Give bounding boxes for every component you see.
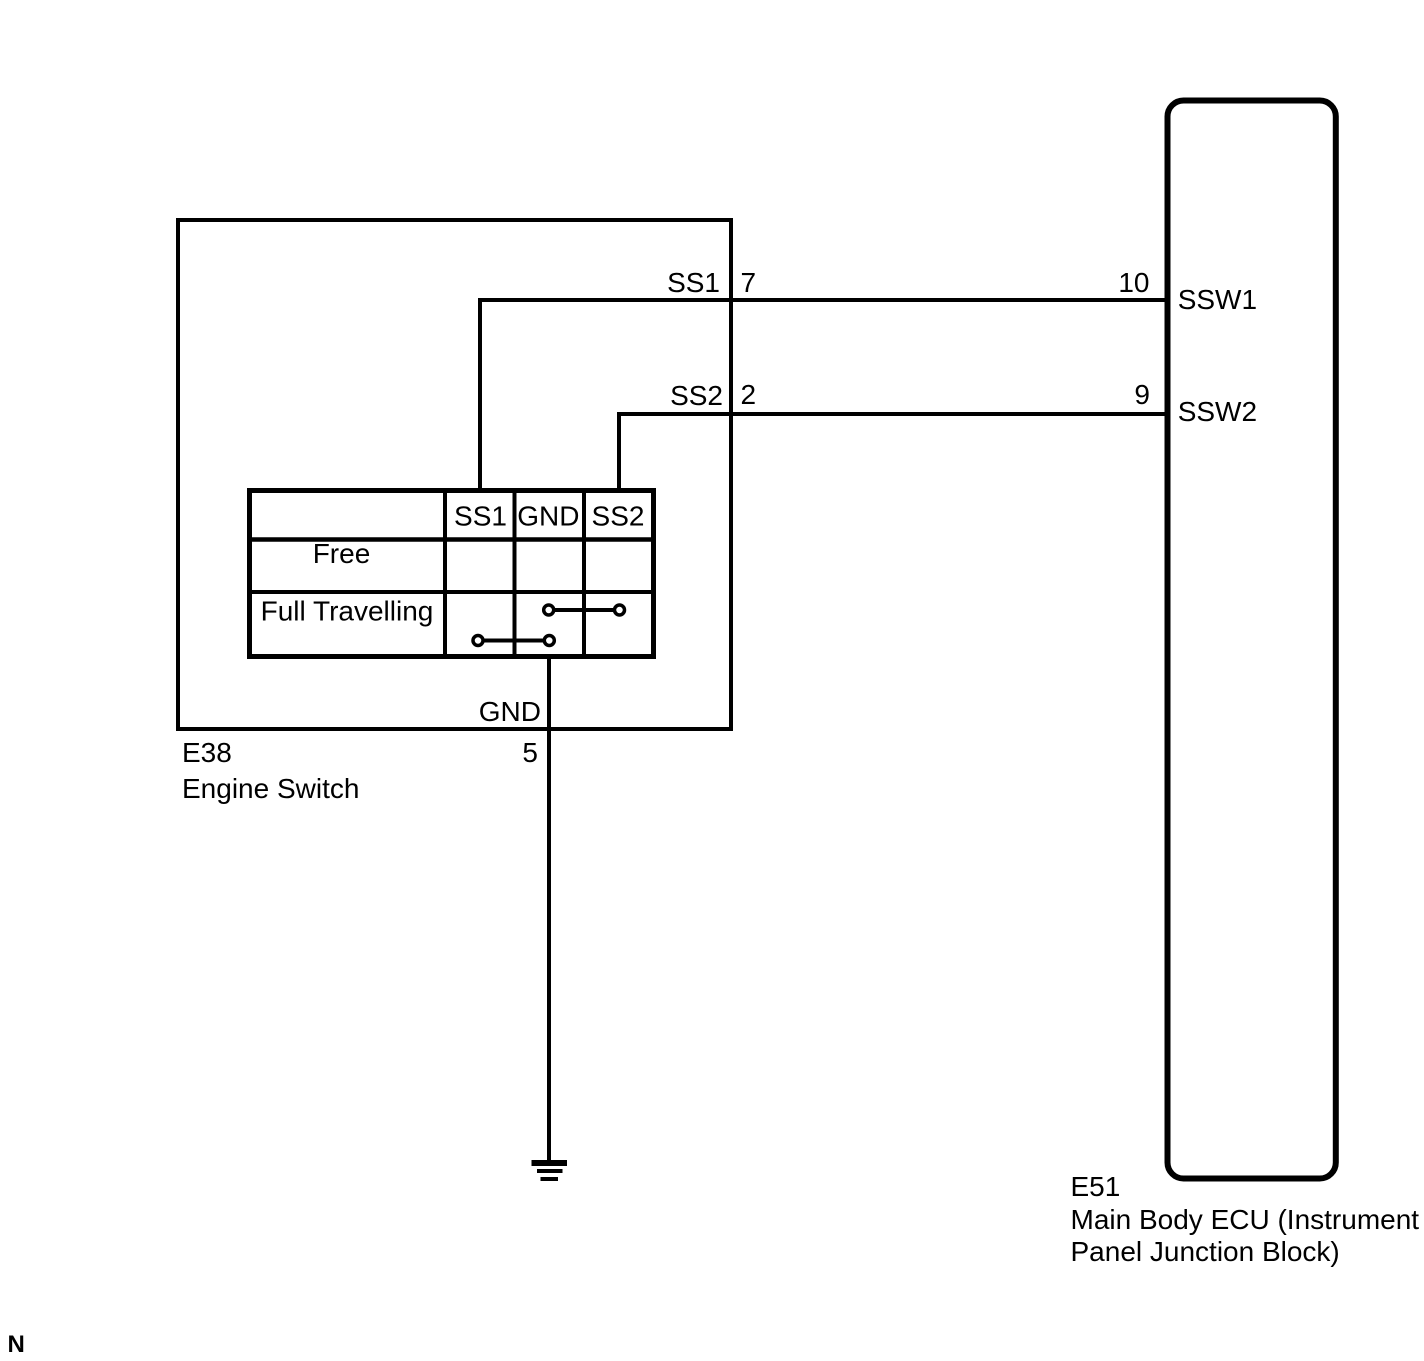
table row line 2 xyxy=(250,590,654,594)
svg-text:2: 2 xyxy=(741,379,757,410)
svg-text:7: 7 xyxy=(741,267,757,298)
contact GND-SS2 (Full Travelling) xyxy=(544,605,625,615)
table column line 1 xyxy=(443,491,447,657)
switch state table outline xyxy=(250,491,654,657)
svg-text:Free: Free xyxy=(313,538,371,569)
ground symbol xyxy=(532,1160,568,1181)
connector E38 Engine Switch outline xyxy=(178,220,731,729)
svg-text:SS2: SS2 xyxy=(592,501,645,532)
wire SS2: switch table to E51 pin 9 xyxy=(619,414,1165,490)
table column line 3 xyxy=(582,491,586,657)
svg-text:E38: E38 xyxy=(182,737,232,768)
wire GND: switch table to ground xyxy=(547,656,551,1163)
svg-text:SS1: SS1 xyxy=(667,267,720,298)
table column line 2 xyxy=(513,491,517,657)
svg-text:SS1: SS1 xyxy=(454,501,507,532)
svg-text:Main Body ECU (Instrument: Main Body ECU (Instrument xyxy=(1071,1204,1420,1235)
svg-text:10: 10 xyxy=(1118,267,1149,298)
svg-text:GND: GND xyxy=(479,696,541,727)
svg-text:N: N xyxy=(8,1331,25,1358)
svg-text:SS2: SS2 xyxy=(670,380,723,411)
svg-text:9: 9 xyxy=(1134,379,1150,410)
svg-text:GND: GND xyxy=(517,501,579,532)
svg-text:Engine Switch: Engine Switch xyxy=(182,773,359,804)
svg-text:5: 5 xyxy=(522,737,538,768)
table row line 1 xyxy=(250,537,654,542)
connector E51 Main Body ECU outline xyxy=(1168,101,1336,1179)
contact SS1-GND (Full Travelling) xyxy=(473,636,554,646)
svg-text:SSW1: SSW1 xyxy=(1178,284,1257,315)
svg-text:E51: E51 xyxy=(1071,1171,1121,1202)
svg-text:SSW2: SSW2 xyxy=(1178,396,1257,427)
svg-text:Panel Junction Block): Panel Junction Block) xyxy=(1071,1236,1340,1267)
wire SS1: switch table to E51 pin 10 xyxy=(480,300,1165,490)
svg-text:Full Travelling: Full Travelling xyxy=(261,596,434,627)
